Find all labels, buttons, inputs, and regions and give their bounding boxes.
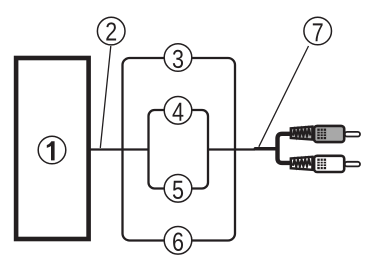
device box 1 <box>16 58 89 239</box>
bottom RCA plug body <box>314 156 344 172</box>
callout circle 6 <box>164 227 192 255</box>
wire from device to inner loop <box>89 148 149 150</box>
callout circle 3 <box>164 44 192 72</box>
bottom plug knurl grid <box>317 159 326 170</box>
wire from inner loop to cable <box>208 148 255 150</box>
callout circle 1 <box>38 136 66 164</box>
top RCA plug tip <box>345 132 360 137</box>
cable trunk <box>255 147 277 151</box>
callout circle 5 <box>164 175 192 203</box>
bottom RCA plug tip <box>345 162 360 167</box>
top RCA plug body <box>314 126 344 142</box>
inner cable loop (paths 4 and 5) <box>149 110 209 189</box>
cable splitter with branches to plugs <box>278 134 292 163</box>
leader line for callout 2 <box>100 46 111 148</box>
callout circle 7 <box>304 17 332 45</box>
leader line for callout 7 <box>259 46 309 147</box>
bottom RCA plug crimp <box>291 157 313 170</box>
callout circle 2 <box>97 17 125 45</box>
outer cable loop (paths 3 and 6) <box>123 58 236 241</box>
top RCA plug crimp <box>291 127 313 140</box>
callout circle 4 <box>164 97 192 125</box>
top plug knurl grid <box>317 129 326 140</box>
